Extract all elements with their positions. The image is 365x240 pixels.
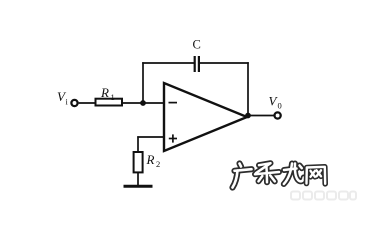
wire plus input: [137, 136, 164, 138]
terminal Vo: [275, 112, 281, 118]
svg-text:1: 1: [111, 92, 115, 102]
watermark character long: [284, 164, 304, 185]
wire R1 to op-amp minus input: [122, 102, 164, 104]
watermark character wang: [307, 167, 326, 184]
svg-text:R: R: [100, 85, 109, 100]
wire feedback down to output: [247, 62, 249, 115]
svg-text:C: C: [193, 38, 201, 52]
svg-text:0: 0: [278, 101, 282, 111]
watermark character dong: [255, 163, 279, 182]
wire output: [248, 115, 274, 117]
wire junction up to feedback: [142, 62, 144, 103]
wire R2 to ground: [137, 172, 139, 186]
op-amp U1: [164, 83, 247, 151]
watermark 广东龙网 character guang: [233, 164, 252, 188]
faint watermark second line: [291, 192, 356, 200]
capacitor C: [194, 56, 196, 72]
wire down to R2: [137, 136, 139, 152]
node junction at inverting input: [140, 100, 146, 106]
terminal Vi: [71, 100, 77, 106]
resistor R2: [134, 152, 143, 172]
plus sign (non-inverting input): [169, 138, 177, 140]
svg-text:R: R: [146, 152, 155, 167]
svg-text:2: 2: [156, 159, 160, 169]
wire feedback top right: [199, 62, 249, 64]
wire feedback top left: [142, 62, 194, 64]
minus sign (inverting input): [169, 102, 178, 104]
wire Vi to R1: [79, 102, 96, 104]
node output: [245, 113, 251, 119]
resistor R1: [96, 99, 123, 106]
ground: [124, 185, 153, 188]
